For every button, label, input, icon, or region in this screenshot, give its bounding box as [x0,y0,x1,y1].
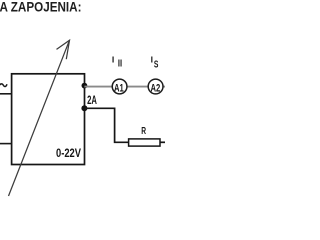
svg-text:II: II [118,59,122,70]
wire: left input lower [0,143,12,145]
junction dot upper (2A tap) [82,83,88,89]
wire: gray top row from tap to A1 [84,86,112,88]
svg-text:A2: A2 [151,82,161,94]
svg-text:S: S [154,60,159,71]
wire: resistor to right edge [160,141,165,143]
resistor R body [129,139,160,146]
svg-text:I: I [151,55,153,65]
svg-text:I: I [112,54,114,64]
ammeter A1 [112,79,127,94]
wiper arrow shaft [9,40,70,196]
svg-text:2A: 2A [87,93,97,107]
svg-text:R: R [141,126,146,137]
svg-text:A1: A1 [114,82,124,94]
AC source tilde symbol [0,84,7,87]
svg-text:0-22V: 0-22V [56,146,82,160]
junction dot lower [81,105,87,111]
wire: lower row horizontal from tap [84,108,128,142]
wire: gray right of A2 to edge [163,86,165,88]
ammeter A2 [148,79,163,94]
autotransformer T1 box [12,74,85,165]
wiper arrowhead [57,40,70,59]
svg-text:A ZAPOJENIA:: A ZAPOJENIA: [0,0,82,15]
wire: left input upper [0,93,12,95]
wire: gray between A1 and A2 [127,86,148,88]
